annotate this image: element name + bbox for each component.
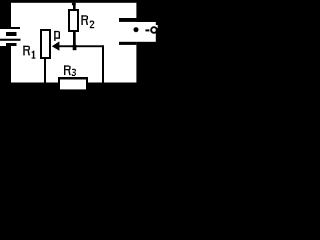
wire potentiometer bottom stub (44, 59, 46, 83)
label R3 letter R (64, 65, 71, 75)
battery B1 long plate lower (0, 39, 21, 41)
wiper arrow head (52, 41, 60, 50)
label R2 subscript 2 (90, 21, 94, 29)
output node dot (134, 27, 139, 32)
resistor R3 interior white (60, 80, 86, 90)
wire R2 bottom stub (73, 31, 76, 45)
wire right vertical from wiper line corner down to bottom (102, 45, 104, 82)
black bar below output tab (119, 42, 136, 45)
panel white upper right part (11, 3, 136, 18)
output tab white band (134, 22, 156, 42)
battery B1 long plate top (0, 27, 20, 29)
potentiometer R1 body (41, 30, 50, 58)
panel white main body (11, 18, 136, 83)
label R1 letter R (23, 46, 30, 56)
label R3 subscript 3 (72, 69, 76, 76)
output minus sign (145, 29, 149, 31)
battery white strip at left edge (0, 29, 11, 46)
label P (wiper) (54, 31, 60, 41)
output node dot left nub (134, 29, 136, 31)
black edge right of output tab lower (156, 28, 194, 42)
black edge right of output tab upper (156, 22, 194, 25)
black edge right of notch (158, 25, 194, 28)
black bar above output tab (119, 18, 194, 22)
junction node at R2 stub and wiper line (73, 45, 77, 50)
resistor R2 body (69, 10, 78, 31)
label R2 letter R (81, 15, 88, 25)
label R1 subscript 1 (32, 51, 36, 59)
resistor R3 body outline (58, 77, 88, 91)
white notch in black edge (156, 25, 158, 28)
battery B1 short thick plate upper (6, 32, 17, 36)
resistor R3 interior white over body (60, 80, 86, 90)
battery B1 short thick plate lower (6, 43, 17, 46)
wire R2 top stub with node (72, 3, 76, 6)
output terminal open circle (cut by black edge into C shape) (151, 27, 157, 33)
background black surround (top wire, bottom wire, left and right edges merge into it) (0, 0, 194, 125)
wiper arrow line (58, 45, 104, 47)
